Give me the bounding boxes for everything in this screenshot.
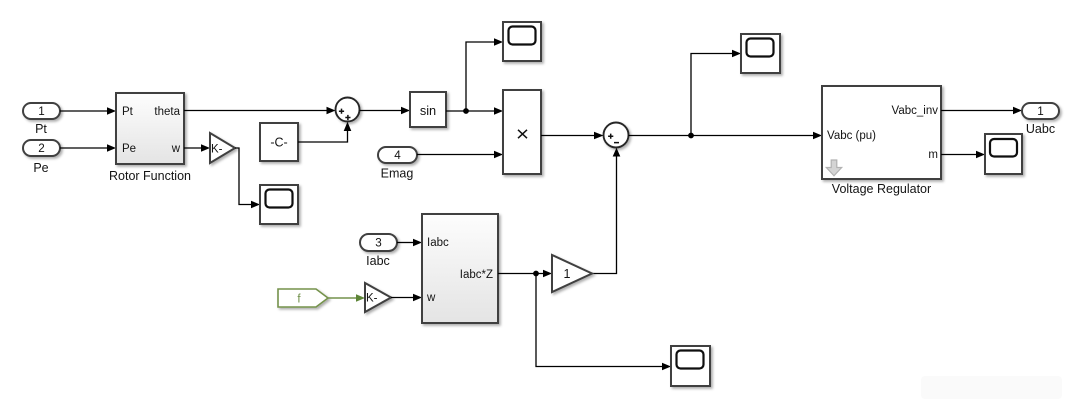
- scope3: [671, 346, 710, 386]
- outport 1 Uabc: [1022, 103, 1059, 119]
- scope2: [741, 34, 780, 73]
- gain 1: [552, 255, 592, 292]
- mask arrow icon: [826, 160, 841, 176]
- inport 2: [23, 140, 60, 156]
- svg-text:Pe: Pe: [122, 143, 136, 155]
- svg-text:Iabc*Z: Iabc*Z: [460, 269, 493, 281]
- wire Iabc*Z to gain1 with branch to scope3: [498, 270, 671, 371]
- sum1: [336, 98, 360, 122]
- svg-text:-C-: -C-: [270, 136, 287, 150]
- wire port4 to product: [417, 151, 503, 159]
- inport 1: [23, 103, 60, 119]
- svg-text:m: m: [928, 149, 938, 161]
- svg-text:Iabc: Iabc: [427, 237, 449, 249]
- svg-text:3: 3: [375, 237, 382, 250]
- subsystem Voltage Regulator: [822, 86, 941, 179]
- svg-text:K-: K-: [211, 144, 223, 156]
- watermark: [921, 376, 1062, 399]
- wire w to gain K1: [184, 144, 210, 152]
- svg-text:sin: sin: [420, 103, 436, 118]
- svg-text:Emag: Emag: [381, 167, 414, 181]
- wire -C- to sum1: [298, 122, 351, 142]
- svg-text:w: w: [171, 143, 181, 155]
- gain K2: [365, 283, 391, 312]
- scope A: [260, 185, 298, 224]
- svg-text:2: 2: [38, 142, 45, 155]
- svg-text:4: 4: [394, 149, 401, 162]
- svg-text:w: w: [426, 292, 436, 304]
- from tag f: [278, 289, 328, 307]
- wire from tag to gain K2 (green): [328, 294, 365, 302]
- svg-text:Vabc (pu): Vabc (pu): [827, 130, 876, 142]
- svg-text:Uabc: Uabc: [1026, 122, 1055, 136]
- sum2: [604, 123, 629, 148]
- constant -C-: [260, 123, 298, 161]
- wire port2 to rotor: [60, 144, 116, 152]
- svg-text:Pe: Pe: [33, 161, 48, 175]
- wire sin to product with branch to scope1: [446, 38, 503, 115]
- svg-text:K-: K-: [366, 293, 378, 305]
- wire Vabc_inv to outport: [941, 107, 1022, 115]
- svg-text:1: 1: [38, 105, 45, 118]
- inport 3: [360, 234, 397, 251]
- product block: [503, 90, 541, 174]
- svg-text:Pt: Pt: [35, 122, 47, 136]
- subsystem Iabc*Z: [422, 214, 498, 323]
- svg-text:1: 1: [564, 267, 571, 281]
- svg-text:Iabc: Iabc: [366, 254, 390, 268]
- wire product to sum2: [541, 132, 604, 140]
- gain K1: [210, 133, 235, 163]
- wire gain K1 to scope A: [235, 148, 260, 208]
- wire theta to sum1: [184, 107, 336, 115]
- scope4: [985, 134, 1022, 174]
- subsystem Rotor Function: [116, 93, 184, 164]
- wire gain K2 to subsystem w: [391, 294, 422, 302]
- wire sum1 to sin: [360, 107, 411, 115]
- wire sum2 to Voltage Regulator with branch to scope2: [629, 50, 823, 140]
- scope1: [503, 22, 541, 61]
- svg-text:theta: theta: [154, 106, 180, 118]
- wire gain1 to sum2 bottom: [592, 148, 620, 274]
- svg-text:Voltage Regulator: Voltage Regulator: [832, 182, 931, 196]
- svg-text:1: 1: [1037, 105, 1044, 118]
- inport 4: [378, 147, 417, 163]
- wire m to scope4: [941, 151, 985, 159]
- svg-text:Pt: Pt: [122, 106, 134, 118]
- wire port1 to rotor: [60, 107, 116, 115]
- wire port3 to subsystem: [397, 239, 422, 247]
- sin block: [410, 92, 446, 127]
- svg-text:Vabc_inv: Vabc_inv: [892, 105, 939, 117]
- svg-text:Rotor Function: Rotor Function: [109, 169, 191, 183]
